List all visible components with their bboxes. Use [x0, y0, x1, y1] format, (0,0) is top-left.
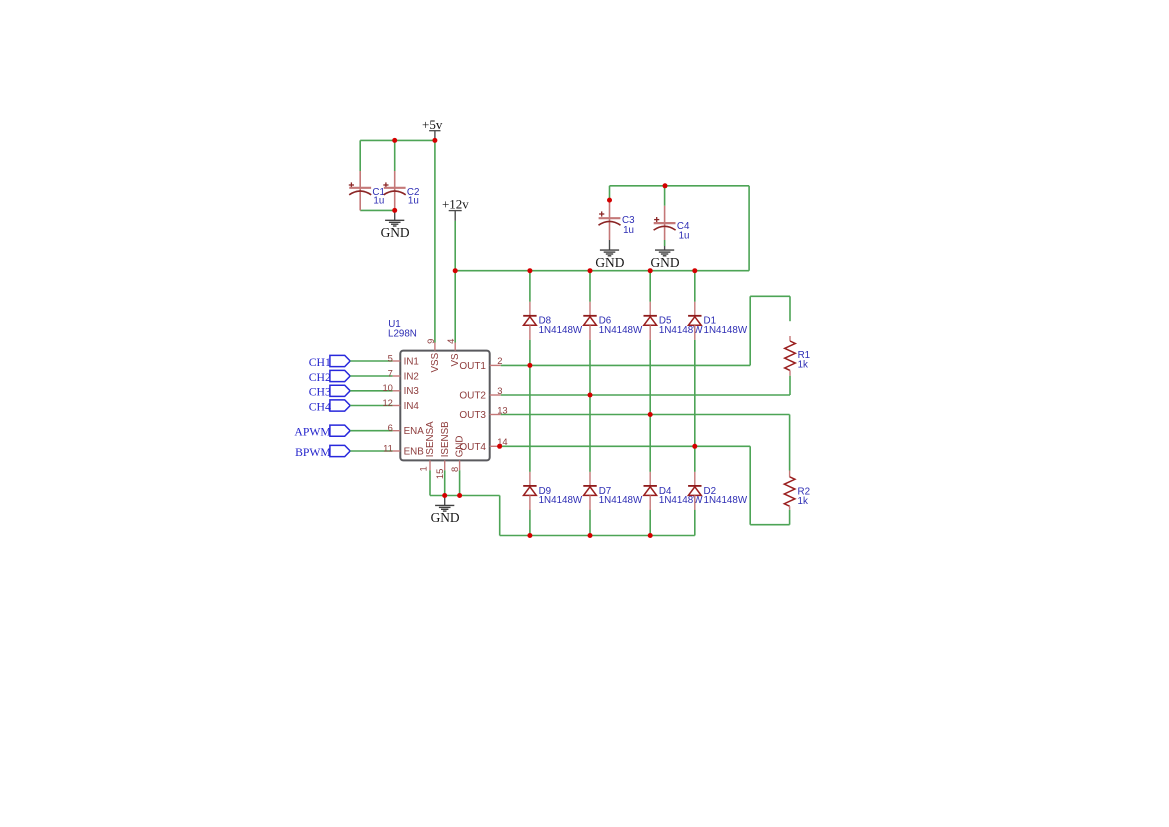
- svg-text:6: 6: [388, 422, 393, 433]
- junction top rail col D5: [648, 268, 653, 273]
- wire CH1 to IC: [350, 360, 392, 362]
- svg-text:OUT1: OUT1: [459, 361, 486, 372]
- svg-text:1N4148W: 1N4148W: [659, 495, 703, 506]
- pin 7 IN2: [388, 367, 419, 382]
- junction bottom rail col D7: [588, 533, 593, 538]
- ground GND1: [381, 210, 410, 240]
- svg-text:OUT3: OUT3: [459, 410, 486, 421]
- svg-text:+12v: +12v: [442, 197, 469, 212]
- diode D8: [523, 302, 583, 340]
- wire APWM to IC: [350, 430, 392, 432]
- svg-text:VSS: VSS: [430, 352, 441, 372]
- svg-text:1u: 1u: [408, 195, 419, 206]
- junction C1-C2 bottom / GND: [392, 208, 397, 213]
- svg-text:1N4148W: 1N4148W: [599, 495, 643, 506]
- svg-text:1N4148W: 1N4148W: [704, 495, 748, 506]
- svg-text:10: 10: [382, 382, 392, 393]
- wire R1 top stub: [789, 296, 791, 321]
- wire C4 stub: [664, 186, 666, 206]
- pin 10 IN3: [382, 382, 419, 397]
- wire C3 stub: [609, 186, 611, 200]
- junction C4 top rail: [663, 183, 668, 188]
- svg-text:GND: GND: [455, 436, 466, 458]
- wire col D6 top: [589, 271, 591, 302]
- ground GND4 bars: [650, 250, 679, 270]
- junction OUT4 / D1 column: [692, 444, 697, 449]
- diode D5: [644, 302, 704, 340]
- wire right riser to C3/C4 rail: [748, 186, 750, 271]
- wire col D1-D2 middle: [694, 340, 696, 472]
- wire CH4 to IC: [350, 405, 392, 407]
- wire OUT3 row pin 13: [501, 414, 790, 416]
- svg-text:IN2: IN2: [404, 371, 419, 382]
- junction pin8: [457, 493, 462, 498]
- wire R2 bottom horizontal: [750, 524, 789, 526]
- junction +5v stub: [432, 138, 437, 143]
- svg-text:GND: GND: [431, 510, 460, 525]
- svg-text:GND: GND: [595, 255, 624, 270]
- junction top rail col D8: [527, 268, 532, 273]
- wire C3/C4 top rail: [610, 185, 750, 187]
- svg-text:CH3: CH3: [309, 386, 331, 399]
- power flag +12v: [442, 197, 469, 221]
- svg-text:ISENSA: ISENSA: [425, 421, 436, 457]
- svg-text:ENA: ENA: [404, 426, 425, 437]
- junction C3 pin: [607, 198, 612, 203]
- pin 2 OUT1: [459, 355, 502, 372]
- wire R2 bottom stub: [789, 510, 791, 525]
- junction OUT1 / D8 column: [527, 363, 532, 368]
- svg-text:7: 7: [388, 367, 393, 378]
- diode D9: [523, 472, 583, 510]
- pin 15 ISENSB: [434, 421, 451, 479]
- svg-text:+5v: +5v: [422, 117, 443, 132]
- pin 6 ENA: [388, 422, 425, 437]
- capacitor C3: [599, 200, 636, 240]
- svg-text:5: 5: [388, 352, 393, 363]
- svg-text:1k: 1k: [798, 359, 808, 370]
- junction pin15 / GND: [442, 493, 447, 498]
- wire OUT2 row pin 3: [501, 394, 790, 396]
- svg-text:IN3: IN3: [404, 386, 420, 397]
- wire col D8-D9 middle: [529, 340, 531, 472]
- wire col D5 top: [649, 271, 651, 302]
- svg-text:APWM: APWM: [294, 426, 331, 439]
- svg-text:12: 12: [382, 397, 392, 408]
- junction top rail col D1: [692, 268, 697, 273]
- svg-text:OUT2: OUT2: [459, 391, 486, 402]
- capacitor C4: [654, 206, 690, 242]
- ground GND4 (C4) stub: [664, 246, 666, 250]
- wire OUT1 row pin 2: [501, 364, 751, 366]
- svg-text:15: 15: [434, 469, 445, 479]
- wire C1-C2 bottom: [360, 209, 395, 211]
- svg-text:1u: 1u: [679, 230, 690, 241]
- svg-text:4: 4: [445, 339, 456, 344]
- pin 12 IN4: [382, 397, 419, 412]
- svg-text:1: 1: [418, 466, 429, 471]
- ground GND3 (C3): [609, 240, 611, 250]
- wire gnd riser: [499, 496, 501, 536]
- pin 9 VSS: [425, 339, 441, 373]
- capacitor C1: [349, 171, 385, 210]
- pin 3 OUT2: [459, 385, 502, 402]
- junction +5v rail / C2: [392, 138, 397, 143]
- svg-text:9: 9: [425, 339, 436, 344]
- svg-text:CH2: CH2: [309, 371, 331, 384]
- svg-text:CH4: CH4: [309, 400, 331, 413]
- port APWM: [294, 425, 350, 439]
- power flag +5v: [422, 117, 443, 140]
- wire pin8 down: [459, 470, 461, 495]
- wire R2 top: [789, 415, 791, 471]
- wire R1 bottom: [789, 376, 791, 395]
- svg-text:3: 3: [497, 385, 502, 396]
- svg-text:2: 2: [497, 355, 502, 366]
- junction +12v rail tee: [453, 268, 458, 273]
- wire BPWM to IC: [350, 450, 392, 452]
- wire bottom rail: [500, 535, 695, 537]
- pin 13 OUT3: [459, 404, 507, 421]
- wire C1 top: [359, 140, 361, 171]
- wire col D1 top: [694, 271, 696, 302]
- wire +5v rail: [360, 139, 435, 141]
- svg-text:1N4148W: 1N4148W: [599, 325, 643, 336]
- wire col D7 bottom: [589, 510, 591, 536]
- svg-text:1N4148W: 1N4148W: [539, 325, 583, 336]
- wire +12v to VS pin 4: [454, 221, 456, 343]
- wire +12v horizontal rail: [455, 270, 749, 272]
- svg-text:1N4148W: 1N4148W: [704, 325, 748, 336]
- pin 4 VS: [445, 339, 461, 367]
- svg-text:IN4: IN4: [404, 401, 420, 412]
- wire gnd horizontal: [430, 495, 500, 497]
- svg-text:VS: VS: [450, 353, 461, 367]
- svg-text:CH1: CH1: [309, 356, 331, 369]
- junction bottom rail col D9: [527, 533, 532, 538]
- svg-text:L298N: L298N: [388, 329, 417, 340]
- svg-text:ISENSB: ISENSB: [440, 421, 451, 457]
- wire CH2 to IC: [350, 375, 392, 377]
- port CH4: [309, 400, 350, 414]
- junction OUT4 pin end: [497, 444, 502, 449]
- resistor R1: [785, 336, 810, 376]
- wire pin1 down: [429, 470, 431, 495]
- svg-text:13: 13: [497, 404, 507, 415]
- port CH1: [309, 355, 350, 369]
- pin 5 IN1: [388, 352, 419, 367]
- svg-text:11: 11: [383, 442, 393, 453]
- wire col D5-D4 middle: [649, 340, 651, 472]
- wire OUT4 row pin 14: [501, 445, 751, 447]
- junction OUT2 / D6 column: [588, 393, 593, 398]
- junction bottom rail col D4: [648, 533, 653, 538]
- svg-text:1u: 1u: [373, 195, 384, 206]
- diode D1: [688, 302, 748, 340]
- wire C2 top: [394, 140, 396, 171]
- wire OUT1 to R1 top: [750, 295, 790, 297]
- ground GND2: [431, 496, 460, 526]
- junction OUT3 / D5 column: [648, 412, 653, 417]
- svg-text:1u: 1u: [623, 225, 634, 236]
- wire OUT1 riser: [749, 296, 751, 365]
- wire col D9 bottom: [529, 510, 531, 536]
- pin 1 ISENSA: [418, 421, 436, 472]
- junction top rail col D6: [588, 268, 593, 273]
- pin 14 OUT4: [459, 436, 507, 453]
- port CH3: [309, 385, 350, 399]
- diode D4: [644, 472, 704, 510]
- resistor R2: [784, 471, 810, 510]
- wire col D4 bottom: [649, 510, 651, 536]
- capacitor C2: [383, 171, 419, 210]
- wire pin15 down: [444, 470, 446, 495]
- ground GND3 bars: [595, 250, 624, 270]
- svg-text:1N4148W: 1N4148W: [659, 325, 703, 336]
- svg-text:1k: 1k: [798, 496, 808, 507]
- wire C4 bottom short: [664, 240, 666, 246]
- diode D7: [583, 472, 643, 510]
- svg-text:1N4148W: 1N4148W: [539, 495, 583, 506]
- svg-text:GND: GND: [650, 255, 679, 270]
- svg-text:8: 8: [449, 467, 460, 472]
- diode D2: [688, 472, 748, 510]
- wire col D6-D7 middle: [589, 340, 591, 472]
- port BPWM: [295, 445, 350, 459]
- wire CH3 to IC: [350, 390, 392, 392]
- svg-text:IN1: IN1: [404, 356, 419, 367]
- port CH2: [309, 370, 350, 384]
- op-amp/IC U1 L298N body: [388, 319, 490, 461]
- wire +5v to VSS pin 9: [434, 140, 436, 342]
- pin 8 GND: [449, 436, 466, 472]
- wire col D2 bottom: [694, 510, 696, 536]
- svg-text:GND: GND: [381, 225, 410, 240]
- svg-text:BPWM: BPWM: [295, 446, 331, 459]
- svg-text:ENB: ENB: [404, 446, 425, 457]
- diode D6: [583, 302, 643, 340]
- wire col D8 top: [529, 271, 531, 302]
- pin 11 ENB: [383, 442, 424, 457]
- wire OUT4 riser down: [749, 446, 751, 524]
